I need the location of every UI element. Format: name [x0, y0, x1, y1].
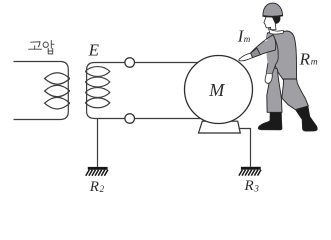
transformer primary coil [14, 62, 70, 120]
primary loop 1 [45, 73, 70, 85]
primary loop 2 [45, 85, 70, 97]
ground R3 [239, 167, 261, 176]
wire secondary bottom lead [87, 111, 126, 118]
motor base pedestal [199, 121, 241, 133]
secondary loop 2 [85, 77, 110, 87]
worker collar [268, 28, 283, 34]
svg-text:M: M [208, 80, 225, 100]
worker helmet [263, 3, 283, 16]
wire top terminal to motor [134, 62, 197, 64]
wire primary core vertical [67, 70, 69, 112]
secondary loop 4 [85, 98, 110, 108]
svg-text:E: E [88, 40, 100, 59]
worker rear leg [282, 79, 309, 110]
wire secondary core vertical [86, 70, 88, 111]
primary loop 3 [45, 97, 70, 109]
wire motor base to R3 ground [239, 129, 251, 167]
worker front leg [267, 67, 282, 113]
motor M circle [185, 56, 253, 124]
svg-text:Im: Im [237, 26, 251, 45]
secondary loop 3 [85, 88, 110, 98]
svg-text:R2: R2 [89, 179, 105, 195]
wire secondary top lead [87, 63, 126, 70]
worker extended arm [251, 35, 276, 58]
transformer secondary coil [85, 63, 125, 119]
wire primary bottom lead [14, 112, 69, 120]
worker neck and face [264, 17, 276, 30]
wire bottom terminal to motor [134, 118, 201, 120]
terminal circle bottom [125, 114, 135, 124]
worker figure [239, 3, 317, 131]
worker forearm sleeve [251, 48, 261, 58]
svg-text:R3: R3 [244, 178, 260, 194]
worker hair [271, 16, 280, 23]
wire primary top lead [14, 62, 69, 70]
worker far hand [265, 73, 272, 83]
svg-text:Rm: Rm [299, 50, 318, 69]
worker front hand [239, 53, 253, 61]
secondary loop 1 [85, 67, 110, 77]
terminal circle top [125, 58, 135, 68]
ground R2 [86, 167, 108, 176]
label 고압 (high voltage) [29, 41, 54, 54]
worker far arm [266, 34, 278, 74]
worker torso jacket [267, 31, 297, 85]
worker front boot [258, 113, 282, 130]
worker sleeve seam highlight [265, 40, 268, 41]
wire drop to R2 ground [97, 119, 99, 167]
worker far arm edge [266, 35, 278, 74]
worker rear boot [296, 106, 317, 131]
worker helmet rim [263, 16, 283, 17]
